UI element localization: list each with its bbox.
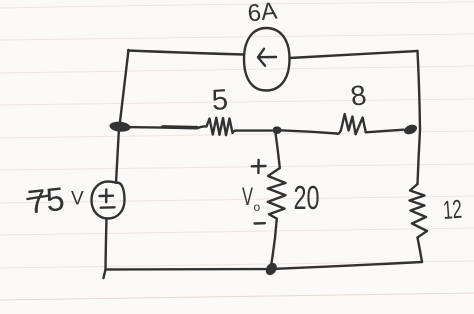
svg-text:75: 75 [26, 180, 66, 221]
svg-text:5: 5 [211, 84, 229, 117]
svg-text:12: 12 [442, 194, 463, 225]
svg-text:V: V [242, 183, 253, 211]
svg-text:V: V [71, 189, 84, 210]
svg-text:o: o [254, 200, 261, 214]
svg-text:20: 20 [294, 179, 320, 216]
svg-text:6A: 6A [246, 0, 278, 27]
